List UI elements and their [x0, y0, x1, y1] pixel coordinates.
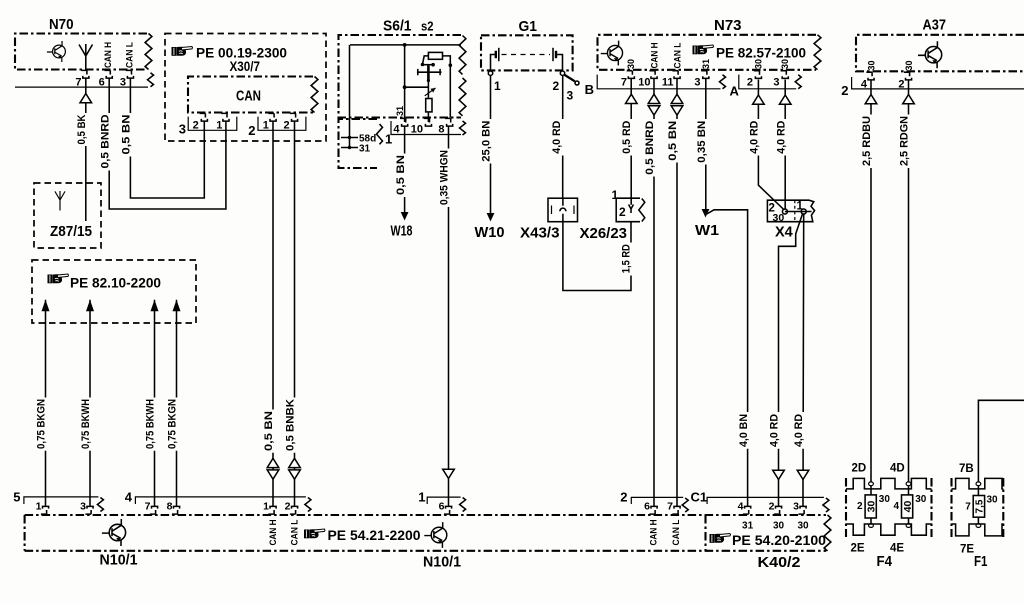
- resistor squiggle N70 right edge: [145, 34, 152, 70]
- pin 2 CAN L of N10/1: [290, 506, 298, 514]
- svg-text:CAN: CAN: [236, 89, 261, 105]
- fuse 40A pin stub bottom: [906, 524, 911, 528]
- switch S6/1 box: [339, 35, 462, 118]
- fuse 7,5A pin stub bottom: [976, 524, 981, 528]
- svg-text:31: 31: [359, 144, 371, 155]
- junction dot: [449, 63, 453, 67]
- control unit N73 box: [598, 35, 817, 70]
- svg-text:4,0 RD: 4,0 RD: [749, 121, 761, 154]
- svg-text:30: 30: [797, 521, 809, 532]
- svg-text:2D: 2D: [852, 463, 867, 475]
- fuse box F4 top castellation: [846, 478, 932, 489]
- resistor in S6/1 lower: [426, 99, 432, 112]
- svg-text:8: 8: [438, 124, 444, 136]
- svg-text:30: 30: [626, 59, 636, 69]
- svg-text:30: 30: [773, 521, 785, 532]
- resistor squiggle X26/23 right edge: [639, 199, 645, 222]
- svg-text:11: 11: [662, 77, 674, 89]
- fuse 7,5A body: [973, 496, 984, 518]
- wire 4,0 RD from X4 to K40/2 pin 2: [779, 214, 803, 507]
- battery cell plates left: [491, 55, 496, 72]
- wire 2,5 RDBU from A37 pin 4 to F4: [870, 80, 872, 483]
- resistor squiggle CAN box right edge: [311, 77, 318, 113]
- svg-text:10: 10: [638, 77, 650, 89]
- bracket X30/7 group 2: [258, 117, 306, 131]
- socket symbol in X26/23: [629, 205, 634, 214]
- svg-text:1: 1: [494, 79, 501, 93]
- pin 8 of S6/1: [445, 118, 453, 126]
- svg-text:CAN H: CAN H: [650, 43, 660, 69]
- junction dot on 31 line: [348, 146, 351, 149]
- svg-text:4,0 RD: 4,0 RD: [769, 414, 781, 447]
- svg-text:6: 6: [644, 501, 650, 513]
- variable arrow symbol: [425, 88, 436, 96]
- svg-text:2: 2: [248, 123, 255, 138]
- wire 0,5 BNRD from N70 pin 6 to X30/7 pin 1: [109, 78, 226, 209]
- svg-text:Z87/15: Z87/15: [50, 224, 92, 240]
- wire 0,35 BN from N73 pin 3 to W1: [705, 78, 707, 209]
- control unit circle symbol in N10/1 left: [102, 519, 126, 546]
- svg-text:1: 1: [216, 120, 222, 132]
- wire 0,5 BN from N70 pin 3 to X30/7 pin 2: [130, 78, 204, 198]
- control unit circle symbol in N73: [601, 41, 623, 66]
- svg-text:W10: W10: [475, 225, 505, 241]
- svg-text:0,35 WHGN: 0,35 WHGN: [439, 150, 451, 205]
- wire 0,5 BNRD from N73 pin 10 to K40/2 pin 6: [653, 78, 655, 507]
- hand icon PE 54.20-2100: [710, 534, 731, 543]
- bracket A end squiggle: [795, 75, 801, 89]
- svg-text:X30/7: X30/7: [230, 59, 261, 74]
- svg-text:A37: A37: [923, 17, 947, 34]
- junction dot: [431, 63, 435, 67]
- svg-text:30: 30: [904, 60, 914, 70]
- hand icon PE 00.19-2300: [172, 47, 193, 56]
- junction dot: [421, 63, 425, 67]
- svg-text:30: 30: [866, 60, 876, 70]
- bracket C1 of K40/2: [707, 497, 824, 504]
- connector double triangle on 0,5 BN wire: [267, 458, 279, 479]
- bracket C1 squiggle: [823, 498, 829, 512]
- wire 0,5 BN from X30/7 pin1 group2 down to N10/1 pin 1: [272, 121, 274, 507]
- svg-text:0,35 BN: 0,35 BN: [696, 121, 708, 163]
- pin 2 of K40/2: [774, 506, 782, 514]
- wire 0,5 BK from N70 pin 7 to Z87/15: [85, 78, 87, 221]
- svg-text:30: 30: [987, 495, 999, 506]
- svg-text:2: 2: [553, 79, 560, 93]
- svg-text:0,5 RD: 0,5 RD: [621, 121, 633, 154]
- connector triangle under pin 7: [626, 94, 638, 103]
- internal stub: [423, 64, 434, 66]
- svg-text:0,5 BN: 0,5 BN: [395, 155, 407, 195]
- connector X26/23 box: [616, 198, 640, 222]
- X4 terminal circle left: [782, 209, 787, 214]
- connector bracket A of N73: [739, 75, 796, 89]
- battery terminal 2: [560, 71, 564, 75]
- resistor R right lead to pin 8: [443, 56, 451, 118]
- svg-text:G1: G1: [519, 18, 538, 35]
- svg-text:4,0 BN: 4,0 BN: [738, 414, 750, 447]
- svg-text:2: 2: [193, 120, 199, 132]
- resistor squiggle N10/1 right edge: [824, 515, 831, 551]
- svg-text:7,5: 7,5: [975, 499, 986, 513]
- bracket group 2 of K40/2: [631, 497, 683, 504]
- ground arrow W1: [702, 209, 710, 218]
- pin 4 of A37: [866, 72, 874, 80]
- svg-text:4D: 4D: [890, 463, 905, 475]
- svg-text:CAN L: CAN L: [124, 42, 134, 68]
- svg-text:31: 31: [395, 106, 405, 116]
- battery dashed link: [502, 54, 551, 56]
- svg-text:K40/2: K40/2: [758, 554, 801, 571]
- pin 10 of N73: [649, 71, 657, 79]
- wire 4,0 RD from G1 terminal 2 to X43/3: [562, 76, 564, 199]
- svg-text:PE 54.21-2200: PE 54.21-2200: [328, 528, 421, 543]
- svg-text:S6/1: S6/1: [383, 18, 412, 35]
- control unit circle symbol in N10/1 right: [424, 522, 447, 548]
- internal left wire to terminal 58d: [349, 45, 351, 148]
- svg-text:C1: C1: [691, 490, 708, 505]
- resistor squiggle N73 right edge: [814, 35, 821, 70]
- svg-text:2: 2: [285, 501, 291, 513]
- svg-text:0,5 BK: 0,5 BK: [76, 114, 88, 144]
- wire 0,35 WHGN from S6/1 pin 8 to N10/1 pin 6: [448, 126, 450, 507]
- arrow into reference box: [86, 300, 94, 312]
- svg-text:7B: 7B: [959, 463, 974, 475]
- X4 terminal circle right: [801, 209, 806, 214]
- switch lever to terminal 3: [564, 75, 575, 82]
- wire 0,5 BN from N73 pin 11 to K40/2 pin 7: [676, 78, 678, 507]
- pin 2 of A37: [904, 72, 912, 80]
- pin 1 of X30/7 group 3: [221, 113, 229, 121]
- sub-box right brace: [377, 124, 383, 144]
- battery terminal 1: [488, 71, 492, 75]
- antenna point Z87/15 box: [34, 183, 101, 248]
- svg-text:s2: s2: [421, 19, 434, 34]
- svg-text:3: 3: [694, 77, 700, 89]
- double triangle under pin 10: [648, 94, 660, 115]
- double triangle under pin 11: [671, 94, 683, 115]
- junction dot: [403, 43, 407, 47]
- pin 6 of K40/2: [649, 506, 657, 514]
- svg-text:31: 31: [742, 521, 754, 532]
- fuse box F1 top castellation: [952, 478, 1004, 489]
- fuse box F1 left edge: [950, 478, 952, 537]
- svg-text:1: 1: [263, 501, 269, 513]
- svg-text:1: 1: [797, 201, 804, 213]
- pin 11 of N73: [672, 71, 680, 79]
- battery G1 box: [481, 35, 573, 70]
- svg-text:0,5 BN: 0,5 BN: [667, 121, 679, 161]
- fuse box F4 bottom castellation: [846, 524, 932, 535]
- pin 3 of N73 group A: [781, 71, 789, 79]
- wire 1,5 RD path X43/3 to X26/23: [563, 222, 631, 291]
- junction dot: [427, 79, 430, 82]
- svg-text:CAN H: CAN H: [649, 520, 659, 546]
- svg-text:2,5 RDGN: 2,5 RDGN: [899, 116, 911, 166]
- arrow into reference box: [173, 300, 181, 312]
- svg-text:2: 2: [841, 83, 848, 98]
- pin 3 of N73: [701, 71, 709, 79]
- svg-text:X43/3: X43/3: [520, 226, 560, 242]
- fuse box F4 right edge: [930, 478, 932, 537]
- connector X30/7 outer dashed box: [165, 34, 326, 142]
- X4 divider dashed: [794, 200, 796, 222]
- connector triangle on WHGN wire: [443, 469, 455, 478]
- svg-text:4,0 RD: 4,0 RD: [793, 414, 805, 447]
- svg-text:0,5 BN: 0,5 BN: [263, 411, 275, 451]
- control unit circle symbol in A37: [918, 41, 942, 68]
- svg-text:3: 3: [793, 501, 799, 513]
- svg-text:2: 2: [769, 501, 775, 513]
- svg-text:1: 1: [385, 132, 392, 147]
- arrow into reference box: [42, 300, 50, 312]
- bracket group 4: [135, 497, 306, 504]
- svg-text:PE 82.57-2100: PE 82.57-2100: [716, 46, 806, 61]
- svg-text:F1: F1: [974, 553, 988, 570]
- wire 0,5 BNBK from X30/7 pin2 group2 down to N10/1 pin 2: [294, 121, 296, 507]
- bracket group 2 squiggle: [682, 498, 688, 512]
- ground arrow W10: [487, 213, 495, 222]
- svg-text:CAN L: CAN L: [671, 519, 681, 545]
- fuse box F1 right edge: [1002, 478, 1004, 537]
- ground arrow W18: [401, 212, 409, 221]
- bracket group 5: [24, 497, 99, 504]
- bracket group 5 squiggle: [97, 498, 103, 512]
- svg-text:4E: 4E: [890, 543, 904, 555]
- svg-text:2E: 2E: [851, 543, 865, 555]
- svg-text:6: 6: [439, 501, 445, 513]
- pin 6 of N70: [105, 70, 113, 78]
- svg-text:30: 30: [915, 494, 927, 505]
- svg-text:0,5 BN: 0,5 BN: [121, 114, 133, 154]
- antenna symbol in N70: [79, 44, 93, 70]
- svg-text:2: 2: [747, 77, 753, 89]
- svg-text:1: 1: [263, 120, 269, 132]
- wire 4,0 BN from K40/2 pin 4 to W1: [707, 210, 748, 507]
- pin 3 of N70: [126, 70, 134, 78]
- svg-text:3: 3: [179, 122, 186, 137]
- svg-text:4: 4: [125, 490, 133, 505]
- pin 7 of N73: [627, 71, 635, 79]
- fuse 7,5A leads: [977, 486, 979, 524]
- svg-text:7: 7: [965, 502, 971, 513]
- resistor squiggle S6/1 right edge upper: [459, 36, 466, 75]
- fuse 30A pin stub top: [869, 482, 874, 486]
- svg-text:30: 30: [879, 494, 891, 505]
- bracket B end squiggle: [720, 75, 726, 89]
- bracket X30/7 group 3: [188, 117, 237, 131]
- connector bracket of A37: [852, 77, 1024, 89]
- svg-text:CAN H: CAN H: [103, 42, 113, 68]
- svg-text:PE 54.20-2100: PE 54.20-2100: [732, 533, 826, 548]
- pin 1 of X30/7 group 2: [268, 113, 276, 121]
- resistor R in S6/1: [428, 52, 442, 59]
- svg-text:7: 7: [621, 77, 627, 89]
- svg-text:PE 82.10-2200: PE 82.10-2200: [70, 276, 161, 291]
- pin 1 of N10/1: [41, 506, 49, 514]
- bracket group 1 squiggle: [460, 498, 466, 512]
- pin 1 CAN H of N10/1: [268, 506, 276, 514]
- hand icon PE 82.57-2100: [693, 45, 714, 54]
- pin 2 of N73 group A: [754, 71, 762, 79]
- wire 0,75 BKGN from N10/1 pin 8: [176, 300, 178, 507]
- svg-text:0,75 BKWH: 0,75 BKWH: [80, 399, 92, 449]
- svg-text:5: 5: [13, 490, 20, 505]
- bracket group 1: [427, 497, 460, 504]
- svg-text:2: 2: [857, 501, 863, 512]
- fuse box F4 left edge: [845, 478, 847, 537]
- svg-text:7: 7: [667, 501, 673, 513]
- control unit A37 box: [856, 35, 1024, 72]
- svg-text:1: 1: [418, 490, 425, 505]
- terminal 31 stub: [341, 147, 358, 149]
- svg-text:0,75 BKGN: 0,75 BKGN: [36, 399, 48, 449]
- svg-text:W1: W1: [695, 223, 719, 239]
- wire 2,5 RDGN from A37 pin 2 to F4: [908, 80, 910, 483]
- svg-text:3: 3: [773, 77, 779, 89]
- bracket group 4 squiggle: [305, 498, 311, 512]
- svg-text:CAN L: CAN L: [673, 42, 683, 68]
- svg-text:B: B: [585, 82, 594, 97]
- connector triangle under pin A2: [753, 95, 765, 104]
- svg-text:2: 2: [619, 205, 626, 219]
- svg-text:8: 8: [167, 501, 173, 513]
- svg-text:10: 10: [411, 124, 423, 136]
- resistor lower lead: [427, 112, 429, 122]
- 58d terminal sub-box: [339, 119, 378, 168]
- pin 7 of N70: [81, 70, 89, 78]
- internal wire to pin 4: [404, 45, 406, 122]
- wire 0,75 BKWH from N10/1 pin 7: [154, 300, 156, 507]
- fuse 7,5A pin stub top: [976, 482, 981, 486]
- wire from fuse 7B to right edge: [978, 400, 1024, 482]
- svg-text:2: 2: [283, 120, 289, 132]
- svg-text:CAN L: CAN L: [290, 519, 300, 545]
- N70 connector bracket line: [15, 86, 148, 88]
- battery cell plates right: [552, 48, 554, 61]
- pin 4 of K40/2: [743, 506, 751, 514]
- connector triangle under pin A3: [779, 95, 791, 104]
- svg-text:4,0 RD: 4,0 RD: [775, 121, 787, 154]
- connector triangle under pin 2: [903, 95, 915, 104]
- svg-text:CAN H: CAN H: [268, 520, 278, 546]
- capacitor in S6/1: [417, 69, 442, 75]
- connector bracket B of N73: [597, 75, 720, 89]
- control unit circle symbol in N70: [47, 41, 65, 62]
- svg-text:3: 3: [567, 89, 574, 103]
- svg-text:0,5 BNRD: 0,5 BNRD: [99, 114, 111, 168]
- svg-text:0,5 BNBK: 0,5 BNBK: [285, 399, 297, 451]
- svg-text:1: 1: [612, 188, 619, 202]
- terminal block X4 box: [767, 200, 814, 222]
- fuse 40A pin stub top: [906, 482, 911, 486]
- wire 0,75 BKGN from N10/1 pin 1: [45, 300, 47, 507]
- svg-text:4: 4: [393, 124, 400, 136]
- svg-text:4: 4: [893, 501, 899, 512]
- svg-text:7E: 7E: [960, 544, 974, 556]
- internal bus line in S6/1: [350, 44, 461, 46]
- fuse 30A pin stub bottom: [869, 524, 874, 528]
- pin 3 of K40/2: [798, 506, 806, 514]
- connector double triangle on 0,5 BNBK wire: [289, 458, 301, 479]
- fuse 30A body: [865, 495, 876, 518]
- terminal 58d stub: [341, 137, 358, 139]
- fuse box F1 bottom castellation: [952, 524, 1004, 536]
- svg-text:0,75 BKWH: 0,75 BKWH: [145, 399, 157, 449]
- junction dot: [403, 85, 407, 89]
- pin 6 of N10/1: [444, 506, 452, 514]
- resistor R left lead: [423, 56, 429, 64]
- hand icon PE 54.21-2200: [304, 529, 325, 538]
- CAN inner box: [188, 77, 313, 113]
- fuse 30A leads: [870, 486, 872, 524]
- connector X43/3 box: [548, 198, 578, 222]
- pin 2 of X30/7 group 3: [200, 113, 208, 121]
- svg-text:2,5 RDBU: 2,5 RDBU: [861, 116, 873, 166]
- capacitor connecting wire: [427, 80, 429, 99]
- svg-text:X26/23: X26/23: [580, 226, 628, 242]
- resistor squiggle S6/1 right edge lower: [459, 78, 466, 116]
- internal link wire to pin 4 branch: [405, 86, 429, 88]
- fuse 40A body: [902, 495, 913, 518]
- svg-text:N73: N73: [714, 17, 742, 34]
- svg-text:0,5 BNRD: 0,5 BNRD: [644, 121, 656, 175]
- wire 4,0 RD from X4 to K40/2 pin 3: [802, 214, 805, 507]
- arrow into reference box: [151, 300, 159, 312]
- antenna symbol in Z87/15: [55, 191, 65, 211]
- wire 4,0 RD from N73 pin A2 to X4: [758, 80, 784, 211]
- hand icon PE 82.10-2200: [48, 274, 69, 283]
- svg-text:30: 30: [773, 212, 785, 224]
- reference box PE 82.10-2200: [32, 260, 196, 323]
- svg-text:F4: F4: [877, 554, 893, 570]
- wire 0,5 RD from N73 pin 7 to X26/23 pin 1: [630, 78, 632, 205]
- wire 0,75 BKWH from N10/1 pin 3: [89, 300, 91, 507]
- connector triangle under pin 7: [80, 94, 92, 103]
- bracket end squiggle: [460, 121, 466, 135]
- svg-text:0,75 BKGN: 0,75 BKGN: [167, 399, 179, 449]
- bracket end squiggle: [148, 73, 154, 87]
- svg-text:31: 31: [701, 59, 711, 69]
- svg-text:30: 30: [866, 501, 878, 513]
- connector triangle on K40/2 pin2 wire: [773, 470, 785, 479]
- svg-text:W18: W18: [391, 224, 413, 240]
- control unit N70 box: [15, 34, 147, 70]
- connector triangle under pin 4: [865, 95, 877, 104]
- svg-text:N10/1: N10/1: [100, 553, 138, 569]
- pin 8 of N10/1: [172, 506, 180, 514]
- svg-text:1: 1: [36, 501, 42, 513]
- svg-text:N70: N70: [49, 16, 74, 33]
- svg-text:40: 40: [902, 501, 914, 513]
- pin 10 of S6/1: [424, 118, 432, 126]
- control unit N10/1 box: [25, 515, 826, 551]
- X4 bus bar: [785, 211, 812, 213]
- socket symbol in X43/3: [560, 208, 566, 211]
- svg-text:1,5 RD: 1,5 RD: [621, 244, 633, 273]
- fuse 40A leads: [908, 486, 910, 524]
- wire 4,0 RD from N73 pin A3 to X4: [784, 80, 786, 210]
- connector triangle on K40/2 pin3 wire: [797, 470, 809, 479]
- S6/1 connector bracket: [391, 121, 461, 135]
- connector notches: [552, 206, 575, 215]
- svg-text:4,0 RD: 4,0 RD: [551, 121, 563, 154]
- svg-text:X4: X4: [775, 225, 793, 241]
- wire 0,5 BN from S6/1 pin 4 to W18: [404, 126, 406, 213]
- svg-text:25,0 BN: 25,0 BN: [481, 121, 493, 162]
- pin 7 of K40/2: [672, 506, 680, 514]
- svg-text:N10/1: N10/1: [423, 555, 461, 571]
